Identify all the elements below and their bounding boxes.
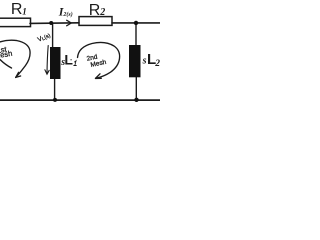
svg-text:R: R [89, 2, 101, 19]
svg-text:s: s [142, 55, 147, 66]
svg-text:2(s): 2(s) [62, 11, 72, 18]
svg-text:L: L [64, 52, 73, 68]
svg-text:2: 2 [99, 7, 105, 18]
svg-text:R: R [11, 1, 23, 18]
svg-text:2: 2 [154, 59, 160, 69]
svg-text:1: 1 [22, 7, 27, 17]
